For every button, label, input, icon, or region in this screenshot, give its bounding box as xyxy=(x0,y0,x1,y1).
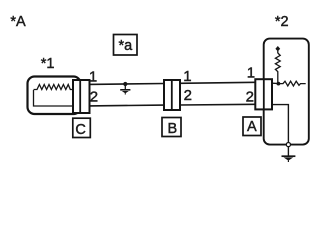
svg-text:1: 1 xyxy=(89,69,97,86)
svg-text:2: 2 xyxy=(90,89,98,106)
svg-text:2: 2 xyxy=(246,89,254,106)
svg-text:1: 1 xyxy=(183,68,191,85)
svg-text:*A: *A xyxy=(10,14,26,30)
svg-text:*1: *1 xyxy=(41,56,55,72)
svg-text:*2: *2 xyxy=(275,14,289,30)
svg-text:A: A xyxy=(247,119,257,135)
svg-text:B: B xyxy=(168,121,178,137)
svg-text:*a: *a xyxy=(119,38,134,54)
svg-text:2: 2 xyxy=(184,87,192,104)
svg-text:1: 1 xyxy=(247,64,255,81)
svg-text:C: C xyxy=(75,122,85,138)
